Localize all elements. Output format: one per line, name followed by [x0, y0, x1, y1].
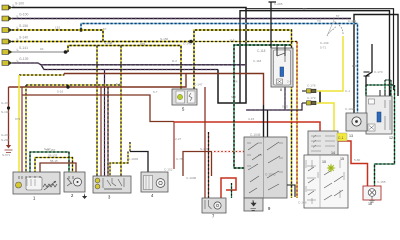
svg-text:S-203: S-203: [1, 138, 10, 142]
svg-text:C-1023: C-1023: [345, 107, 355, 111]
svg-text:C-155: C-155: [377, 180, 386, 184]
wire black triple into relay 12: [380, 90, 390, 96]
wire green dashed right leg to horn: [375, 85, 395, 186]
wire dark-red drop x205: [204, 87, 206, 198]
connector stub G-100 (left edge): [2, 16, 13, 21]
svg-text:5-80: 5-80: [354, 158, 360, 162]
svg-text:C-76: C-76: [176, 157, 183, 161]
ignition switch box 1: [13, 172, 60, 194]
svg-text:C-1046: C-1046: [265, 173, 276, 177]
label S-100: [13, 1, 24, 6]
svg-text:C-1003: C-1003: [128, 157, 138, 161]
ground arrow below box 2: [82, 193, 87, 199]
label S-140: [17, 35, 28, 40]
svg-text:16: 16: [368, 202, 372, 206]
label S-156: [17, 24, 28, 29]
wire green dashed top bar: [366, 84, 394, 86]
wire W5 branch up and across: [194, 30, 292, 198]
lamp unit box 5: [172, 89, 197, 105]
wire W5 yellow dashed bus: [12, 41, 190, 43]
wire W1c black nested run to relay: [354, 15, 398, 116]
svg-text:12: 12: [389, 136, 393, 140]
wire W6 violet dashed G-139: [12, 63, 246, 65]
svg-text:S-156: S-156: [19, 24, 28, 28]
wire brown bus y87: [9, 74, 187, 88]
inline connector C-179: [302, 101, 316, 105]
wire yellow y75 run: [19, 74, 64, 76]
svg-text:C-139: C-139: [320, 41, 329, 45]
svg-text:57: 57: [303, 7, 307, 11]
wire yellow jog into switch 3: [110, 152, 128, 177]
wire brown drop x101 to switch 3: [100, 87, 102, 176]
instrument cluster box 10: [304, 155, 348, 208]
key warning switch box 2: [64, 172, 85, 192]
junction dot on S-141 wire: [64, 50, 68, 54]
svg-text:G-104: G-104: [1, 101, 10, 105]
wire W1a black nested pair: [246, 9, 394, 90]
wire W6 branch violet lower: [41, 65, 218, 70]
wire dark-red dashed drop x208: [208, 132, 210, 198]
svg-text:29-137: 29-137: [48, 154, 58, 158]
wire W4 black/yellow from S-156: [12, 30, 103, 42]
wire C-205 drop from top: [269, 2, 277, 48]
wire green drop into washer pump: [231, 183, 233, 198]
svg-text:G-100: G-100: [19, 12, 29, 16]
wire red loop into washer pump: [221, 178, 236, 198]
svg-text:57: 57: [103, 27, 107, 31]
wire violet drop x104 to switch 3: [104, 70, 106, 177]
svg-text:D-2: D-2: [172, 59, 177, 63]
svg-text:C-1: C-1: [345, 89, 350, 93]
svg-text:C-147: C-147: [194, 83, 203, 87]
svg-text:57-157: 57-157: [46, 148, 56, 152]
yellow highlighted pin label C-x: [337, 133, 347, 141]
wire yellow/red dashed drop: [296, 42, 298, 199]
label S-141: [17, 46, 28, 51]
svg-text:C-179: C-179: [307, 96, 316, 100]
wire green dashed inner pair: [385, 80, 391, 96]
connector stub S-140 (left edge): [2, 39, 13, 44]
svg-text:151: 151: [55, 26, 60, 30]
svg-text:C-205: C-205: [274, 2, 283, 6]
wire black drop2 into column sw: [267, 110, 269, 137]
svg-text:C-170: C-170: [374, 70, 383, 74]
shielded antenna lead symbol: [327, 20, 343, 36]
wire yellow loop sw1-sw2: [35, 158, 73, 174]
svg-text:TX: TX: [317, 19, 321, 23]
ground G-203 symbol: [5, 145, 13, 152]
svg-text:24: 24: [234, 80, 238, 84]
wire brown bus y73.5: [64, 74, 264, 106]
svg-text:10: 10: [322, 160, 326, 164]
multifunction column switch box 9: [244, 137, 287, 211]
svg-text:3-15: 3-15: [248, 117, 254, 121]
svg-text:S-115: S-115: [200, 147, 208, 151]
wire bk/ye jog x130: [129, 142, 131, 152]
wire W5 right extension yellow: [191, 41, 297, 43]
svg-text:C-141: C-141: [348, 19, 357, 23]
wire violet dashed y110: [246, 103, 302, 110]
wire bk/ye drop x26 to switch 1: [25, 85, 27, 173]
junction dot W5 branch: [189, 40, 193, 44]
wire W1 black feed (battery): [12, 8, 246, 104]
wire dark-red drop x108 to switch 3: [107, 87, 109, 176]
horn ground box 16: [363, 186, 381, 202]
svg-text:G-203: G-203: [1, 133, 10, 137]
wire yellow drop x97 to switch 3: [96, 46, 98, 177]
wiper switch box 3: [93, 176, 131, 193]
wire green loop sw1-sw2: [30, 152, 69, 173]
svg-text:S-971: S-971: [2, 153, 11, 157]
svg-text:C-118: C-118: [253, 59, 261, 63]
svg-text:94: 94: [40, 47, 44, 51]
connector stub G-139 (left edge): [2, 61, 13, 66]
interval wiper relay box 8: [271, 44, 293, 87]
wire green main dashed: [234, 45, 291, 168]
svg-text:S-140: S-140: [19, 35, 28, 39]
wire dark-red drop x8.5 to ground: [8, 87, 10, 145]
washer pump switch box 4: [141, 172, 168, 192]
svg-text:S-156: S-156: [160, 37, 169, 41]
wire brown y95 run: [22, 95, 174, 122]
wire black riser x320: [319, 91, 321, 103]
wire dark-red drop x22 to switch 1: [21, 87, 23, 173]
wire yellow drop x19 to switch 1: [18, 75, 20, 173]
svg-text:979: 979: [15, 117, 20, 121]
svg-text:S-138: S-138: [104, 41, 113, 45]
svg-text:S-141: S-141: [19, 46, 28, 50]
wire brown loop sw1-sw2: [40, 163, 76, 173]
horn relay box 12: [366, 96, 392, 134]
wire yellow run to antenna: [317, 36, 343, 91]
svg-text:S-104: S-104: [1, 110, 10, 114]
svg-text:C-1045: C-1045: [250, 133, 261, 137]
svg-text:58-15: 58-15: [50, 159, 58, 163]
washer pump motor box 7: [202, 198, 226, 213]
svg-text:5HD: 5HD: [282, 105, 289, 109]
connector stub S-156 (left edge): [2, 28, 13, 33]
wire black drop into column sw: [263, 105, 265, 137]
wire yellow run to cluster: [317, 103, 337, 140]
wire brown bridge over box4: [183, 152, 212, 177]
svg-text:G-139: G-139: [19, 57, 29, 61]
svg-text:C-178: C-178: [307, 84, 316, 88]
loop wire labels: [46, 148, 58, 163]
svg-text:C-1: C-1: [338, 136, 344, 140]
svg-text:C-118: C-118: [257, 49, 266, 53]
horn box 13: [346, 113, 367, 131]
wire bk/ye drop x121 to switch 3: [120, 46, 122, 177]
svg-text:2-4: 2-4: [230, 38, 235, 42]
wire black jog connector C-170: [366, 44, 372, 96]
svg-text:5-70: 5-70: [116, 82, 122, 86]
svg-text:14: 14: [331, 151, 335, 155]
fuse panel box 14: [308, 131, 338, 155]
wire black jog to switch 4: [130, 152, 148, 173]
svg-text:57: 57: [336, 14, 340, 18]
svg-text:8: 8: [280, 88, 282, 92]
wire W3 light-blue dashed: [81, 24, 358, 115]
wire W2 black/violet bus: [12, 18, 351, 20]
wire red feed to wiper circuit: [174, 122, 368, 186]
svg-text:979: 979: [140, 42, 145, 46]
svg-text:S-100: S-100: [15, 1, 24, 5]
svg-text:15: 15: [340, 157, 344, 161]
wire violet relay pin drop: [284, 87, 286, 110]
svg-text:S-8: S-8: [231, 95, 236, 99]
junction dot x8.5: [7, 106, 10, 109]
junction dot on W4 at x81: [79, 28, 82, 31]
svg-text:5-16: 5-16: [57, 90, 63, 94]
wire yellow riser to y45 bus: [68, 46, 181, 90]
label G-139: [17, 57, 29, 62]
svg-text:2-8: 2-8: [287, 80, 292, 84]
wire S-141 gray: [12, 51, 68, 53]
svg-text:C-152: C-152: [164, 168, 173, 172]
wire red dashed y152: [212, 151, 244, 153]
svg-text:13: 13: [349, 134, 353, 138]
label G-100: [17, 12, 29, 17]
wire yellow dashed y85: [26, 84, 121, 86]
wire red vertical x174: [173, 122, 175, 170]
svg-text:C-146: C-146: [298, 201, 307, 205]
svg-text:5-71: 5-71: [320, 46, 326, 50]
wire black stub from switch 9: [287, 185, 295, 197]
junction dot brown y87: [66, 85, 69, 88]
svg-text:908: 908: [352, 64, 357, 68]
wire W1b black nested run: [240, 11, 390, 103]
svg-text:5-7: 5-7: [153, 90, 158, 94]
inline connector C-178: [302, 89, 316, 93]
inline connector C-170 mark: [364, 72, 370, 76]
svg-text:C-1008: C-1008: [186, 176, 196, 180]
connector stub S-141 (left edge): [2, 50, 13, 55]
wire brown riser x64: [63, 74, 65, 76]
illumination bulb starburst: [327, 164, 335, 172]
wire green dashed left leg: [365, 85, 367, 96]
svg-text:C-143: C-143: [183, 42, 192, 46]
connector stub S-100 (left edge): [2, 5, 13, 10]
svg-text:2-27: 2-27: [175, 137, 181, 141]
